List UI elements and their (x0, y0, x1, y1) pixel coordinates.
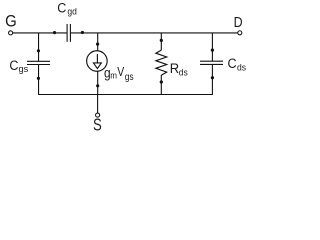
node dot below Rds (160, 80, 163, 83)
terminal D (234, 14, 243, 35)
svg-text:gs: gs (125, 71, 134, 82)
svg-text:S: S (93, 116, 102, 135)
terminal S (93, 113, 102, 135)
wire Cgs branch lower (38, 65, 40, 95)
svg-text:C: C (57, 0, 66, 16)
svg-text:C: C (9, 57, 18, 73)
resistor Rds (156, 50, 188, 77)
current source gmVgs (87, 51, 134, 82)
wire Cgs branch upper (38, 33, 40, 61)
node dot right of Cgd (81, 31, 84, 34)
svg-text:V: V (117, 65, 124, 79)
wire top rail left segment (13, 32, 67, 34)
svg-text:gd: gd (67, 6, 76, 17)
wire current source branch upper (97, 33, 99, 51)
wire Cds branch lower (211, 65, 213, 95)
node dot above Cds (211, 49, 214, 52)
svg-text:G: G (5, 13, 17, 31)
capacitor Cgd (57, 0, 77, 42)
node dot below current source (96, 84, 99, 87)
capacitor Cgs (9, 57, 50, 74)
node dot left of Cgd (53, 31, 56, 34)
svg-text:R: R (170, 60, 180, 76)
wire top rail right segment (71, 32, 238, 34)
terminal G (5, 13, 17, 35)
svg-text:ds: ds (237, 62, 246, 73)
wire Rds branch lower (160, 75, 162, 94)
wire current source branch lower (97, 71, 99, 94)
node dot below Cds (211, 76, 214, 79)
svg-text:ds: ds (179, 67, 188, 78)
svg-text:C: C (228, 55, 237, 71)
capacitor Cds (200, 55, 246, 72)
node dot above Cgs (37, 49, 40, 52)
node dot above current source (96, 43, 99, 46)
wire Rds branch upper (160, 33, 162, 50)
wire bottom rail (38, 94, 213, 96)
node dot above Rds (160, 39, 163, 42)
node dot below Cgs (37, 77, 40, 80)
svg-text:D: D (234, 14, 243, 30)
svg-text:gs: gs (19, 63, 29, 74)
wire S stub (97, 95, 99, 114)
wire Cds branch upper (211, 33, 213, 61)
svg-text:m: m (110, 70, 117, 81)
